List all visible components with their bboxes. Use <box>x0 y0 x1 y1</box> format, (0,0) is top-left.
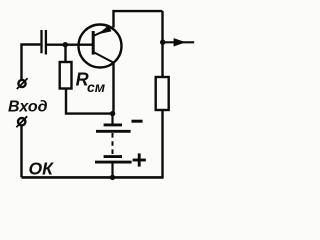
wire: capacitor to base node to transistor base <box>47 44 93 46</box>
node: battery bottom junction <box>110 175 115 180</box>
wire: bottom rail <box>22 176 164 179</box>
wire: output node down to load resistor <box>161 42 163 77</box>
wire: terminal X1 up and right to capacitor <box>22 45 41 80</box>
resistor RCM <box>60 62 72 89</box>
output arrow <box>163 38 194 46</box>
label RCM (bias resistor) <box>76 69 106 95</box>
wire: RCM bottom down then right to battery node <box>66 89 111 114</box>
svg-text:Вход: Вход <box>8 99 48 116</box>
input terminal X1 (top) <box>17 78 28 89</box>
svg-text:ОК: ОК <box>29 159 55 179</box>
input terminal X2 (bottom) <box>16 116 27 127</box>
transistor VT1 <box>79 25 122 68</box>
plus polarity label <box>133 153 146 166</box>
battery GB1 <box>95 114 132 178</box>
node: battery top junction <box>110 111 115 116</box>
wire: load resistor down to bottom-right corner <box>161 110 163 177</box>
wire: node down to resistor RCM <box>64 46 66 62</box>
node: base / RCM junction <box>63 42 68 47</box>
minus polarity label <box>132 120 143 123</box>
capacitor C1 <box>42 30 46 55</box>
wire: emitter up to top rail, rail to right corner <box>114 11 163 27</box>
svg-text:см: см <box>87 79 106 95</box>
wire: terminal X2 down to bottom rail <box>20 125 22 177</box>
wire: collector down to battery node <box>112 63 114 114</box>
node: output junction <box>160 40 165 45</box>
wire: right rail down to output node <box>161 11 163 42</box>
resistor R (collector load) <box>156 77 169 110</box>
